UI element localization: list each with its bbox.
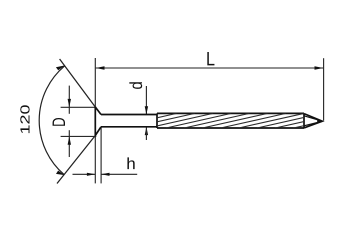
svg-text:h: h: [126, 155, 136, 173]
svg-text:L: L: [206, 48, 215, 70]
svg-text:d: d: [126, 81, 146, 89]
svg-text:D: D: [49, 117, 69, 127]
svg-text:120: 120: [18, 105, 33, 135]
